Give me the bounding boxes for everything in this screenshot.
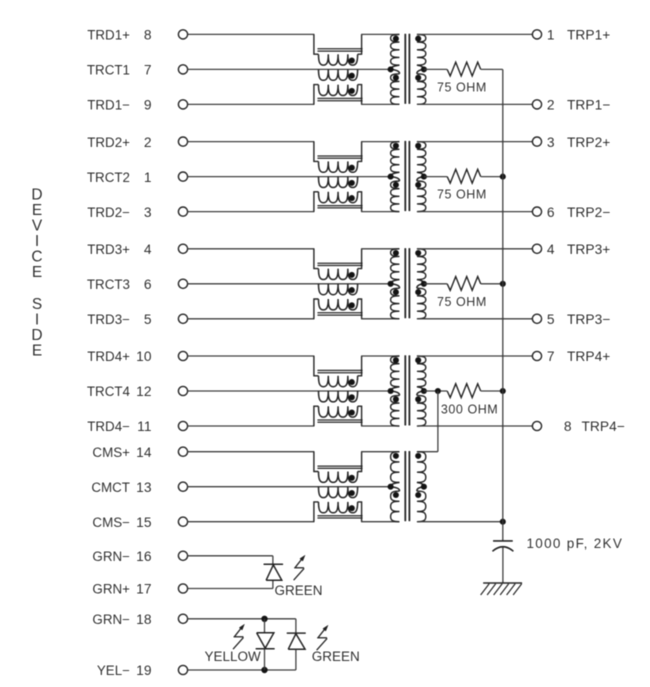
svg-text:18: 18 bbox=[136, 612, 152, 627]
svg-text:2: 2 bbox=[547, 98, 555, 113]
svg-text:7: 7 bbox=[144, 63, 152, 78]
pin 1 TRP1+ (right) bbox=[532, 30, 541, 39]
svg-text:S: S bbox=[32, 296, 42, 313]
LED D1 GREEN bbox=[264, 563, 284, 565]
transformer T4 bbox=[391, 356, 400, 387]
svg-text:4: 4 bbox=[547, 242, 555, 257]
svg-text:9: 9 bbox=[144, 98, 152, 113]
pin TRD2- (left) bbox=[178, 207, 187, 216]
wire TRD3- to choke bbox=[188, 318, 315, 320]
svg-text:CMCT: CMCT bbox=[91, 480, 130, 495]
common-mode choke L4 bbox=[314, 356, 319, 376]
common-mode choke L1 bbox=[314, 34, 319, 54]
common-mode choke L3 bbox=[314, 249, 319, 269]
svg-text:11: 11 bbox=[137, 419, 151, 434]
wire TRD4+ to choke bbox=[188, 355, 315, 357]
svg-text:CMS+: CMS+ bbox=[92, 445, 130, 460]
junction dot bus at R2 bbox=[500, 174, 506, 180]
junction dot bus at R4 bbox=[500, 388, 506, 394]
wire TRP3+ (secondary top) bbox=[417, 248, 533, 250]
wire GRN- 16 to LED D1 bbox=[188, 555, 273, 557]
wire choke to transformer (bottom) ch3 bbox=[361, 318, 400, 320]
wire TRP4+ (secondary top) bbox=[417, 355, 533, 357]
svg-text:75 OHM: 75 OHM bbox=[437, 295, 487, 309]
svg-text:10: 10 bbox=[136, 349, 152, 364]
pin 4 TRP3+ (right) bbox=[532, 244, 541, 253]
svg-text:TRD2−: TRD2− bbox=[87, 205, 130, 220]
svg-text:TRCT2: TRCT2 bbox=[87, 170, 130, 185]
pin TRD1- (left) bbox=[178, 100, 187, 109]
svg-text:12: 12 bbox=[136, 384, 151, 399]
transformer T1 bbox=[391, 34, 400, 65]
pin TRCT3 (left) bbox=[178, 279, 187, 288]
wire TRD1+ to choke bbox=[188, 33, 315, 35]
svg-text:TRP3−: TRP3− bbox=[567, 312, 610, 327]
wire green branch top bbox=[295, 619, 297, 633]
wire TRD3+ to choke bbox=[188, 248, 315, 250]
pin TRCT4 (left) bbox=[178, 386, 187, 395]
svg-text:GREEN: GREEN bbox=[312, 649, 360, 664]
transformer T2 bbox=[391, 142, 400, 173]
wire TRCT3 to transformer tap bbox=[188, 283, 391, 285]
svg-text:8: 8 bbox=[564, 419, 572, 434]
svg-text:TRP1−: TRP1− bbox=[567, 98, 610, 113]
pin TRD1+ (left) bbox=[178, 30, 187, 39]
pin 6 TRP2- (right) bbox=[532, 207, 541, 216]
svg-text:5: 5 bbox=[144, 312, 152, 327]
wire GRN- 18 to LEDs bbox=[188, 618, 296, 620]
pin TRD3- (left) bbox=[178, 314, 187, 323]
svg-text:7: 7 bbox=[547, 349, 555, 364]
svg-text:1000 pF, 2KV: 1000 pF, 2KV bbox=[527, 536, 624, 551]
wire TRP1- (secondary bottom) bbox=[417, 103, 533, 105]
svg-text:17: 17 bbox=[136, 582, 151, 597]
svg-text:GREEN: GREEN bbox=[275, 583, 323, 598]
svg-text:TRP4+: TRP4+ bbox=[567, 349, 610, 364]
wire choke to transformer (bottom) ch2 bbox=[361, 211, 400, 213]
wire 300-ohm node down to CMS transformer bbox=[437, 391, 439, 452]
svg-text:TRCT4: TRCT4 bbox=[87, 384, 131, 399]
wire choke to transformer (top) ch4 bbox=[361, 355, 400, 357]
svg-text:TRCT3: TRCT3 bbox=[87, 277, 130, 292]
wire choke to transformer (top) CMS bbox=[361, 451, 400, 453]
pin 2 TRP1- (right) bbox=[532, 100, 541, 109]
svg-text:CMS−: CMS− bbox=[92, 515, 130, 530]
svg-text:D: D bbox=[31, 327, 42, 344]
junction dot node 19 bottom bbox=[261, 667, 267, 673]
svg-text:E: E bbox=[32, 202, 42, 219]
pin 7 TRP4+ (right) bbox=[532, 351, 541, 360]
wire choke to transformer (top) ch3 bbox=[361, 248, 400, 250]
wire TRCT1 to transformer tap bbox=[188, 68, 391, 70]
svg-text:5: 5 bbox=[547, 312, 555, 327]
svg-text:E: E bbox=[32, 343, 42, 360]
wire yellow branch bottom bbox=[264, 649, 266, 670]
pin TRCT2 (left) bbox=[178, 172, 187, 181]
junction dot bus at R3 bbox=[500, 281, 506, 287]
svg-text:TRD4−: TRD4− bbox=[87, 419, 130, 434]
pin GRN- 16 (left) bbox=[178, 551, 187, 560]
svg-text:TRP1+: TRP1+ bbox=[567, 28, 610, 43]
pin TRD3+ (left) bbox=[178, 244, 187, 253]
resistor R4 300 OHM bbox=[424, 390, 447, 392]
wire TRP1+ (secondary top) bbox=[417, 33, 533, 35]
svg-text:D: D bbox=[31, 186, 42, 203]
wire CMS- to choke bbox=[188, 521, 315, 523]
pin CMS- 15 (left) bbox=[178, 517, 187, 526]
svg-text:I: I bbox=[35, 312, 39, 329]
svg-text:1: 1 bbox=[547, 28, 555, 43]
capacitor C1 1000pF bbox=[493, 540, 513, 542]
wire GRN+ 17 to LED D1 bbox=[188, 588, 273, 590]
light arrow of D3 bbox=[317, 626, 328, 650]
light arrow of D2 bbox=[233, 625, 244, 649]
svg-text:TRD4+: TRD4+ bbox=[87, 349, 130, 364]
svg-text:V: V bbox=[32, 217, 43, 234]
svg-text:TRCT1: TRCT1 bbox=[87, 63, 130, 78]
svg-text:14: 14 bbox=[136, 445, 152, 460]
wire TRP2- (secondary bottom) bbox=[417, 211, 533, 213]
svg-text:8: 8 bbox=[144, 28, 152, 43]
common-mode choke L2 bbox=[314, 142, 319, 162]
pin TRD4+ (left) bbox=[178, 351, 187, 360]
svg-text:TRD3+: TRD3+ bbox=[87, 242, 130, 257]
svg-text:GRN+: GRN+ bbox=[92, 582, 130, 597]
svg-text:6: 6 bbox=[144, 277, 152, 292]
wire TRD2- to choke bbox=[188, 211, 315, 213]
svg-text:TRD1−: TRD1− bbox=[87, 98, 130, 113]
pin 8 TRP4- (right) bbox=[532, 421, 541, 430]
svg-text:15: 15 bbox=[136, 515, 152, 530]
svg-text:TRP2−: TRP2− bbox=[567, 205, 610, 220]
resistor R1 75 OHM bbox=[424, 68, 447, 70]
pin CMCT 13 (left) bbox=[178, 482, 187, 491]
svg-text:TRP2+: TRP2+ bbox=[567, 135, 610, 150]
svg-text:GRN−: GRN− bbox=[92, 549, 130, 564]
svg-text:TRP4−: TRP4− bbox=[582, 419, 625, 434]
common-mode choke L5 (CMS) bbox=[314, 452, 319, 472]
wire TRCT4 to transformer tap bbox=[188, 390, 391, 392]
svg-text:3: 3 bbox=[144, 205, 152, 220]
svg-text:300 OHM: 300 OHM bbox=[441, 403, 498, 417]
svg-text:I: I bbox=[35, 233, 39, 250]
pin 3 TRP2+ (right) bbox=[532, 137, 541, 146]
svg-text:19: 19 bbox=[136, 663, 152, 678]
svg-text:TRD2+: TRD2+ bbox=[87, 135, 130, 150]
wire TRD2+ to choke bbox=[188, 141, 315, 143]
pin TRD2+ (left) bbox=[178, 137, 187, 146]
wire YEL- 19 to LEDs bbox=[188, 669, 296, 671]
wire TRP4- (secondary bottom) bbox=[417, 425, 533, 427]
svg-text:4: 4 bbox=[144, 242, 152, 257]
svg-text:2: 2 bbox=[144, 135, 152, 150]
svg-text:TRP3+: TRP3+ bbox=[567, 242, 610, 257]
wire TRP2+ (secondary top) bbox=[417, 141, 533, 143]
wire choke to transformer (top) ch2 bbox=[361, 141, 400, 143]
svg-text:C: C bbox=[31, 248, 42, 265]
svg-text:13: 13 bbox=[136, 480, 152, 495]
wire termination bus (node TERM) bbox=[502, 69, 504, 541]
resistor R2 75 OHM bbox=[424, 176, 447, 178]
wire choke to transformer (top) ch1 bbox=[361, 33, 400, 35]
wire yellow branch top bbox=[264, 619, 266, 633]
ground bbox=[483, 582, 522, 584]
junction dot 300-ohm left node bbox=[435, 388, 441, 394]
wire CMS+ to choke bbox=[188, 451, 315, 453]
svg-text:YELLOW: YELLOW bbox=[205, 649, 262, 664]
wire CMCT to transformer tap bbox=[188, 486, 391, 488]
pin GRN- 18 (left) bbox=[178, 614, 187, 623]
svg-text:6: 6 bbox=[547, 205, 555, 220]
pin YEL- 19 (left) bbox=[178, 665, 187, 674]
wire TRP3- (secondary bottom) bbox=[417, 318, 533, 320]
svg-text:E: E bbox=[32, 264, 42, 281]
svg-text:16: 16 bbox=[136, 549, 152, 564]
pin 5 TRP3- (right) bbox=[532, 314, 541, 323]
svg-text:75 OHM: 75 OHM bbox=[437, 188, 487, 202]
wire choke to transformer (bottom) ch4 bbox=[361, 425, 400, 427]
pin TRCT1 (left) bbox=[178, 65, 187, 74]
wire TRD1- to choke bbox=[188, 103, 315, 105]
junction dot bus at CMS bbox=[500, 519, 506, 525]
transformer T5 (CMS) bbox=[391, 452, 400, 483]
pin GRN+ 17 (left) bbox=[178, 584, 187, 593]
wire choke to transformer (bottom) ch1 bbox=[361, 103, 400, 105]
svg-text:75 OHM: 75 OHM bbox=[437, 80, 487, 94]
wire TRCT2 to transformer tap bbox=[188, 176, 391, 178]
pin CMS+ 14 (left) bbox=[178, 447, 187, 456]
svg-text:GRN−: GRN− bbox=[92, 612, 130, 627]
svg-text:YEL−: YEL− bbox=[97, 663, 130, 678]
wire TRD4- to choke bbox=[188, 425, 315, 427]
light arrow of D1 bbox=[294, 556, 305, 580]
resistor R3 75 OHM bbox=[424, 283, 447, 285]
wire CMS secondary bottom to bus bbox=[417, 521, 503, 523]
svg-text:3: 3 bbox=[547, 135, 555, 150]
transformer T3 bbox=[391, 249, 400, 280]
wire green branch bottom bbox=[295, 649, 297, 670]
LED D2 YELLOW bbox=[257, 633, 274, 649]
svg-text:1: 1 bbox=[144, 170, 152, 185]
junction dot node 18 top bbox=[261, 616, 267, 622]
svg-text:TRD1+: TRD1+ bbox=[87, 28, 130, 43]
pin TRD4- (left) bbox=[178, 421, 187, 430]
wire choke to transformer (bottom) CMS bbox=[361, 521, 400, 523]
LED D3 GREEN bbox=[287, 632, 306, 634]
svg-text:TRD3−: TRD3− bbox=[87, 312, 130, 327]
